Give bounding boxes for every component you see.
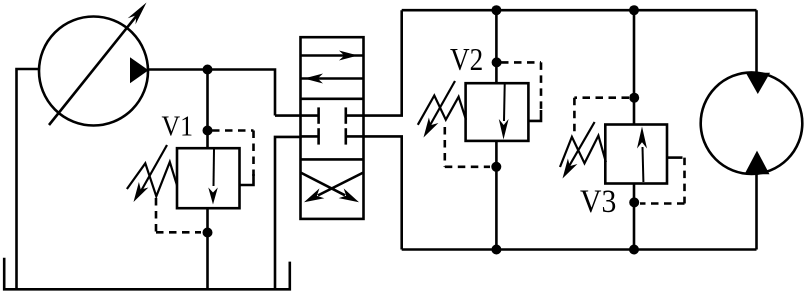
node V2 bottom junction [491,162,501,172]
node bottom rail V2 [491,245,501,255]
wire P to valve left upper port [275,114,302,117]
wire top rail [402,9,757,12]
drain line V2 (dashed) [443,127,446,167]
node bottom rail V3 [629,245,639,255]
pump P1 (variable displacement) [39,17,148,126]
node V1 bottom junction [203,228,213,238]
spring V1 [127,162,177,196]
wire pump inlet [17,69,40,291]
motor M1 bottom triangle [745,151,770,175]
valve V1 internal flow arrow [213,150,216,187]
svg-text:V2: V2 [450,41,483,77]
wire V2 lower [495,141,498,250]
node top rail V3 [629,5,639,15]
node V3 bottom junction [629,197,639,207]
wire motor top [755,10,758,73]
directional valve DV1 envelope [301,37,364,219]
wire V3 upper [633,10,636,124]
wire motor bottom [755,174,758,250]
pump P1 variability arrow [49,14,138,125]
tank T1 [4,258,290,290]
spring V2 [418,96,466,125]
drain line V1 (dashed) [155,198,158,232]
wire bottom rail [402,248,757,251]
svg-text:V3: V3 [580,184,616,220]
adjust arrow V3 [568,122,595,168]
wire V2 upper [495,10,498,83]
valve V2 internal flow arrow [503,85,506,122]
node V2 pilot junction [492,57,502,67]
pump P1 flow triangle [130,57,149,83]
spring V3 [560,136,606,167]
wire valve right upper port to top rail [364,10,402,115]
wire V1 to tank [206,208,209,290]
wire valve right lower port to bottom rail [364,136,402,249]
node top rail V2 [491,5,501,15]
node V1 pilot junction [203,126,213,136]
pilot line V1 (dashed) [212,129,254,132]
wire pump outlet to valve [148,70,275,116]
adjust arrow V1 [141,145,167,191]
DV1 top position arrows [301,54,363,57]
node pump outlet junction [203,65,213,75]
relief valve V3 body [605,125,667,184]
adjust arrow V2 [429,81,455,127]
motor M1 top triangle [746,73,770,94]
motor M1 [701,72,803,174]
valve V3 internal flow arrow [642,147,645,182]
DV1 centre position blocked ports [301,114,319,117]
node V3 pilot junction [629,93,639,103]
relief valve V2 body [466,83,529,141]
pilot line V3 right (dashed) [667,156,675,159]
wire V1 branch down [206,70,209,150]
pilot line V2 (dashed) [501,61,541,64]
wire V3 lower [633,184,636,250]
DV1 bottom position crossed arrows [301,173,346,196]
wire valve T return to tank [275,137,302,289]
pilot line V3 top (dashed) [574,96,629,99]
relief valve V1 body [177,148,240,208]
svg-text:V1: V1 [162,111,194,143]
